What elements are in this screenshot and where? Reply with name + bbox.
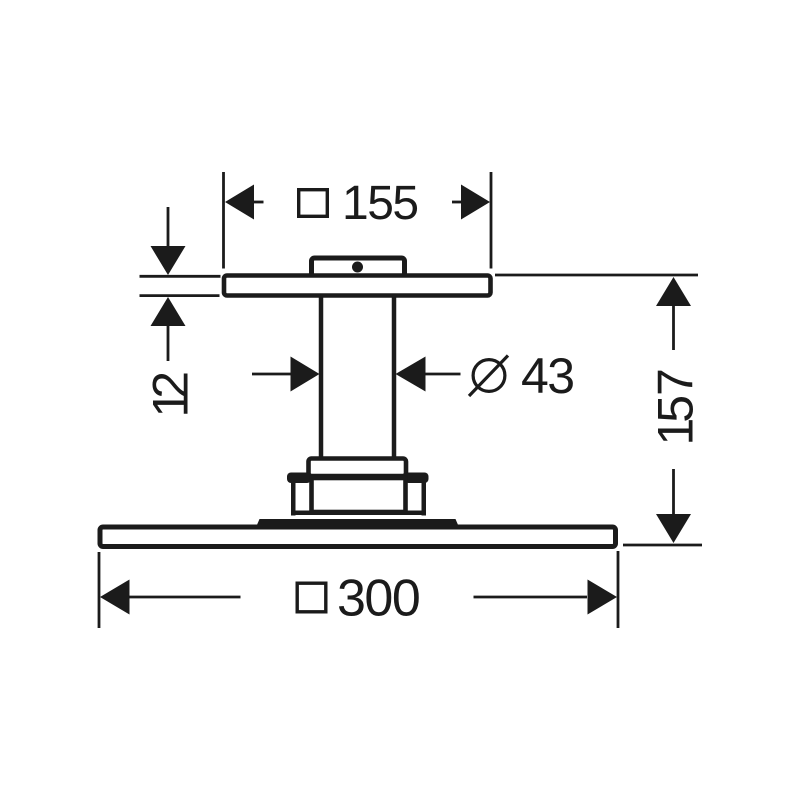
dim 12: upper extension line — [140, 275, 221, 278]
right side bar — [422, 480, 427, 516]
dim 155: right arrow — [461, 185, 490, 220]
dim 157: bottom extension line — [623, 544, 702, 547]
dim 300: square symbol — [297, 583, 326, 612]
lower base box — [312, 478, 406, 512]
svg-text:300: 300 — [337, 570, 419, 628]
dim 43: left arrow — [291, 357, 320, 392]
dim 157: value text (rotated) — [648, 368, 704, 445]
dim 300: left extension line — [98, 552, 101, 628]
dim 155: right stub line — [452, 201, 463, 204]
dim 157: top extension line — [495, 274, 698, 277]
dim 155: left extension line — [222, 172, 225, 269]
dim 43: left line — [252, 373, 292, 376]
dim 300: right extension line — [617, 551, 620, 628]
base bottom band — [291, 511, 426, 516]
dim 157: up arrow — [656, 277, 691, 306]
svg-text:157: 157 — [648, 368, 704, 445]
dim 300: right line — [474, 596, 588, 599]
left ear tab — [287, 473, 311, 484]
svg-text:12: 12 — [143, 371, 199, 418]
dim 12: down arrow — [151, 246, 186, 275]
dim 157: lower line — [672, 469, 675, 514]
dim 155: left stub line — [253, 201, 264, 204]
svg-text:43: 43 — [521, 348, 574, 404]
svg-text:155: 155 — [342, 177, 418, 230]
dim 157: down arrow — [656, 514, 691, 543]
sprayface raised band on plate — [257, 519, 459, 526]
dim 12: value text (rotated) — [143, 371, 199, 418]
left side bar — [291, 480, 296, 516]
dim 155: right extension line — [490, 172, 493, 269]
dim 300: left line — [128, 596, 241, 599]
dim 300: value text — [337, 570, 419, 628]
connector box on top of ceiling plate — [312, 258, 405, 280]
dim 43: diameter symbol — [469, 356, 508, 397]
dim 12: up arrow — [151, 297, 186, 326]
dim 12: lower extension line — [140, 294, 220, 297]
dim 155: square symbol — [299, 190, 328, 217]
dim 12: lower line — [167, 325, 170, 361]
dim 300: right arrow — [588, 580, 618, 615]
dim 157: upper line — [672, 305, 675, 350]
right ear tab — [405, 473, 429, 484]
flange box at base of column — [309, 459, 407, 477]
bottom shower plate — [100, 527, 616, 547]
screw dot on connector — [352, 262, 363, 273]
dim 155: left arrow — [225, 185, 254, 220]
dim 300: left arrow — [100, 580, 130, 615]
dim 155: value text — [342, 177, 418, 230]
dim 43: right arrow — [396, 357, 426, 392]
dim 12: upper line — [167, 207, 170, 248]
dim 43: right line — [424, 373, 461, 376]
dim 43: value text — [521, 348, 574, 404]
column (shower arm pipe) — [321, 292, 394, 460]
ceiling plate (top escutcheon) — [224, 276, 491, 296]
